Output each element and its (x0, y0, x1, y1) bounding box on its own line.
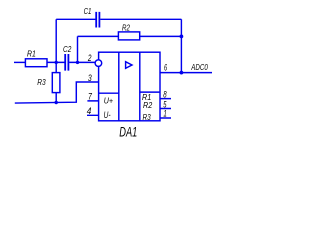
svg-text:R3: R3 (37, 77, 46, 87)
svg-text:R2: R2 (143, 101, 153, 110)
svg-text:3: 3 (88, 73, 92, 83)
svg-text:U-: U- (104, 110, 111, 120)
svg-text:4: 4 (87, 106, 92, 116)
svg-text:C1: C1 (84, 6, 92, 16)
svg-text:U+: U+ (104, 96, 113, 106)
svg-text:R1: R1 (27, 49, 36, 59)
svg-text:C2: C2 (63, 44, 72, 54)
svg-text:R3: R3 (143, 113, 152, 122)
svg-text:1: 1 (163, 109, 166, 119)
svg-text:7: 7 (88, 91, 93, 101)
svg-text:8: 8 (163, 90, 166, 100)
svg-text:2: 2 (87, 53, 91, 63)
svg-text:R2: R2 (122, 23, 130, 33)
svg-text:DA1: DA1 (119, 123, 137, 139)
svg-text:6: 6 (164, 62, 167, 72)
svg-text:ADC0: ADC0 (191, 62, 209, 72)
